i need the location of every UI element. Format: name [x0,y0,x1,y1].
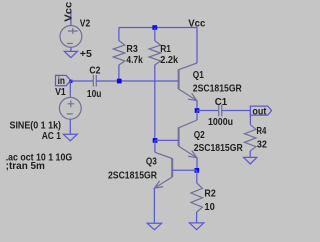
wire Q2 base node down to Q3 collector [154,140,156,152]
wire V2 minus lead [70,47,72,51]
svg-text:2SC1815GR: 2SC1815GR [108,170,157,181]
svg-text:Q3: Q3 [146,157,157,168]
net label Vcc (top right) [188,18,205,29]
svg-text:R1: R1 [160,44,171,55]
transistor Q2 2SC1815GR [179,120,197,158]
value SINE(0 1 1k) [10,120,62,131]
svg-text:1000u: 1000u [208,117,233,128]
wire in node to C2 [70,80,93,82]
label C2 [89,66,100,77]
capacitor C1 [219,105,222,117]
value 2SC1815GR (Q1) [193,84,242,95]
value 32 [257,139,267,150]
wire R1 down to Q2 base node [154,65,156,141]
svg-text:R2: R2 [204,189,216,200]
wire R3 to input node [118,65,120,81]
resistor R3 [113,41,125,65]
svg-text:2.2k: 2.2k [160,55,178,66]
junction node R3 / input wire [117,79,122,84]
capacitor C2 [93,75,96,87]
svg-text:2SC1815GR: 2SC1815GR [194,143,243,154]
label Q2 [194,130,205,141]
wire R4 to ground [249,151,251,157]
svg-text:10: 10 [204,202,215,213]
resistor R4 [244,125,256,151]
label R3 [126,44,138,55]
wire V2 plus lead to Vcc flag [70,11,72,25]
wire node to R2 [196,170,198,183]
directive .ac oct 10 1 10G [6,153,73,164]
svg-text:Q2: Q2 [194,130,205,141]
wire C1 to out flag [222,110,251,112]
port flag out [250,106,271,115]
net label Vcc (rotated, at V2) [64,1,75,22]
wire node to Q2 base [155,139,179,141]
value 2SC1815GR (Q3) [108,170,157,181]
label R2 [204,189,216,200]
svg-text:+5: +5 [80,49,93,60]
label Q1 [193,70,204,81]
wire node to C1 [197,110,219,112]
svg-text:AC 1: AC 1 [42,131,62,142]
label R4 [256,126,266,137]
junction node Q2 emitter / Q3 base / R2 [195,168,200,173]
value 10u [87,89,102,100]
label V1 [55,87,66,98]
wire Vcc top rail [119,27,197,29]
junction node Vcc rail / R1 [152,25,157,30]
svg-text:R4: R4 [256,126,266,137]
junction node Q1 emitter / Q2 collector / C1 [195,108,200,113]
value 4.7k [126,55,143,66]
svg-text:out: out [252,106,267,117]
junction node R1 / Q2 base / Q3 collector [153,138,158,143]
value AC 1 [42,131,62,142]
wire out node to Q2 collector [196,111,198,121]
label out [252,106,267,117]
wire Vcc rail to Q1 collector [196,28,198,64]
junction node in [69,80,72,83]
label in [58,76,65,87]
resistor R1 [149,41,161,65]
wire Q2 emitter down [196,158,198,171]
voltage source V1 [59,97,81,119]
wire Vcc rail to R3 [118,28,120,42]
voltage source V2 [60,26,82,48]
wire out node down to R4 [249,111,251,125]
transistor Q3 2SC1815GR (mirrored) [154,152,172,188]
transistor Q1 2SC1815GR [179,63,197,101]
svg-text:;tran 5m: ;tran 5m [6,161,45,172]
wire V1 minus lead [69,119,71,134]
svg-text:in: in [58,76,65,87]
svg-text:Q1: Q1 [193,70,204,81]
value 2SC1815GR (Q2) [194,143,243,154]
ground at R2 [189,223,203,230]
ground at V2 [64,51,77,57]
value 2.2k [160,55,178,66]
ground at R4 [244,157,257,164]
value +5 [80,49,93,60]
svg-text:Vcc: Vcc [64,1,75,22]
svg-text:R3: R3 [126,44,138,55]
label R1 [160,44,171,55]
value 10 [204,202,215,213]
resistor R2 [191,183,203,212]
label C1 [215,97,228,108]
svg-text:SINE(0 1 1k): SINE(0 1 1k) [10,120,62,131]
wire Q1 emitter to out node [196,101,198,111]
wire in node down to V1 [69,81,71,97]
wire Q3 emitter to ground [153,188,155,223]
label V2 [80,19,91,30]
comment ;tran 5m [6,161,45,172]
svg-text:4.7k: 4.7k [126,55,143,66]
port flag in [56,75,71,85]
svg-text:C1: C1 [215,97,228,108]
wire C2 to Q1 base [96,80,178,82]
ground at Q3 [147,223,161,230]
svg-text:10u: 10u [87,89,102,100]
wire R2 to ground [196,212,198,223]
svg-text:2SC1815GR: 2SC1815GR [193,84,242,95]
wire Q3 base to node [172,169,197,171]
svg-text:V1: V1 [55,87,66,98]
value 1000u [208,117,233,128]
label Q3 [146,157,157,168]
ground at V1 [63,134,77,141]
svg-text:32: 32 [257,139,267,150]
svg-text:V2: V2 [80,19,91,30]
wire Vcc rail to R1 [154,28,156,42]
svg-text:C2: C2 [89,66,100,77]
